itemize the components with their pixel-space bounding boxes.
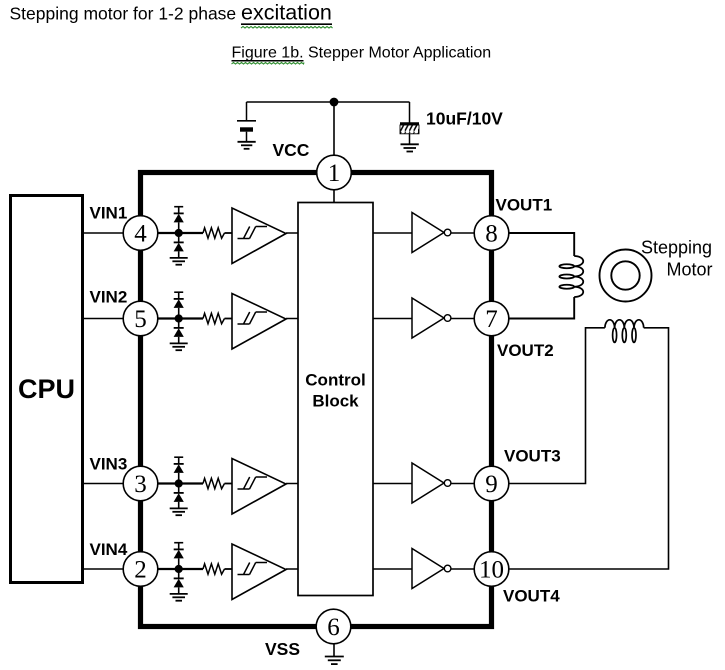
pin 3 (VIN3) [123,466,158,501]
wire resistor R1 to buffer [225,232,233,234]
svg-text:VIN3: VIN3 [90,455,128,474]
svg-text:CPU: CPU [18,374,75,404]
resistor R1 [203,228,225,238]
wire resistor R3 to buffer [225,483,233,485]
wire VOUT1 (pin 8) to coil L1 [508,233,574,256]
wire CPU to pin 2 (VIN4) [84,568,124,570]
pin 2 (VIN4) [123,552,158,587]
control block U1 [298,203,373,596]
wire pin 4 to resistor R1 [157,232,203,234]
pin 10 (VOUT4) [474,552,509,587]
pin 6 (VSS) [316,609,351,644]
underline (Figure 1b.) [232,60,304,62]
svg-text:Stepping: Stepping [641,238,712,258]
svg-text:VOUT4: VOUT4 [503,587,560,606]
wire control block to inverter (row 2) [373,318,412,320]
svg-text:10uF/10V: 10uF/10V [426,109,503,129]
CPU block [11,196,83,583]
ground (C1) [238,142,256,149]
node input junction row 1 [175,229,183,237]
wire buffer to control block (row 1) [286,232,298,234]
svg-text:VOUT3: VOUT3 [504,447,561,466]
wire coil L1 to VOUT2 (pin 7) [508,297,574,319]
svg-text:VCC: VCC [273,140,310,160]
diode D3a (ESD to VCC stub) [174,457,184,483]
svg-text:3: 3 [134,471,147,498]
svg-text:VOUT1: VOUT1 [496,196,553,215]
wire resistor R4 to buffer [225,568,233,570]
diode D4b (ESD to ground) [174,569,184,594]
wire VOUT3 (pin 9) to coil L2 [508,328,605,484]
wire pin 5 to resistor R2 [157,317,203,319]
ground (row 3) [170,508,188,515]
svg-text:1: 1 [328,160,341,187]
inverter N4 [412,549,451,589]
resistor R3 [203,478,225,488]
wire buffer to control block (row 3) [286,483,298,485]
node VCC junction [330,98,339,107]
svg-text:5: 5 [134,306,147,333]
schmitt-trigger buffer U2 [232,208,286,264]
node input junction row 4 [175,565,183,573]
inductor L2 (motor winding B) [605,320,644,343]
inverter N2 [412,298,451,338]
stepping motor symbol M1 [600,250,652,302]
pin 1 (VCC) [317,155,352,190]
pin 5 (VIN2) [123,301,158,336]
wire inverter to pin 10 [451,568,475,570]
wire control block to inverter (row 4) [373,568,412,570]
svg-text:9: 9 [485,471,498,498]
IC package outline (thick border) [141,173,492,627]
wire buffer to control block (row 2) [286,318,298,320]
wire inverter to pin 9 [451,483,475,485]
diode D1b (ESD to ground) [174,233,184,258]
svg-text:6: 6 [327,614,340,641]
wire control block to inverter (row 1) [373,232,412,234]
wire inverter to pin 8 [451,232,475,234]
wire buffer to control block (row 4) [286,568,298,570]
ground (row 4) [170,594,188,601]
diode D2a (ESD to VCC stub) [174,292,184,318]
wire CPU to pin 5 (VIN2) [84,318,124,320]
svg-text:VSS: VSS [265,639,300,659]
label Stepping Motor [641,238,713,280]
svg-text:Block: Block [312,392,359,411]
svg-text:VIN4: VIN4 [90,540,128,559]
grammar-check wavy underline (excitation) [241,27,333,29]
svg-text:VOUT2: VOUT2 [497,341,554,360]
diode D3b (ESD to ground) [174,484,184,509]
wire pin 2 to resistor R4 [157,568,203,570]
wire inverter to pin 7 [451,318,475,320]
grammar-check wavy underline (Figure 1b.) [232,62,305,64]
underline (excitation) [241,23,332,25]
ground (C2) [401,144,419,151]
diode D2b (ESD to ground) [174,319,184,344]
resistor R2 [203,313,225,323]
wire coil L2 to VOUT4 (pin 10) [508,328,669,569]
wire resistor R2 to buffer [225,318,233,320]
wire pin 1 to control block [333,189,335,203]
pin 8 (VOUT1) [474,216,509,251]
svg-text:VIN1: VIN1 [90,204,128,223]
svg-text:Motor: Motor [667,260,713,280]
wire VCC rail to pin 1 [333,102,335,156]
svg-text:7: 7 [485,306,498,333]
svg-text:VIN2: VIN2 [90,288,128,307]
svg-text:8: 8 [485,220,498,247]
svg-text:2: 2 [134,556,147,583]
schmitt-trigger buffer U5 [232,544,286,600]
capacitor C2 (electrolytic 10uF/10V) [400,102,419,144]
resistor R4 [203,564,225,574]
diode D4a (ESD to VCC stub) [174,543,184,569]
svg-text:Stepping motor for 1-2 phase e: Stepping motor for 1-2 phase excitation [10,0,332,24]
capacitor C1 (bypass, left) [237,102,256,141]
wire CPU to pin 3 (VIN3) [84,483,124,485]
node input junction row 3 [175,479,183,487]
schmitt-trigger buffer U4 [232,459,286,515]
svg-text:10: 10 [479,556,504,583]
ground (row 1) [170,258,188,265]
inverter N3 [412,463,451,503]
pin 9 (VOUT3) [474,466,509,501]
wire pin 3 to resistor R3 [157,482,203,484]
diode D1a (ESD to VCC stub) [174,207,184,233]
wire CPU to pin 4 (VIN1) [84,232,124,234]
ground (row 2) [170,343,188,350]
svg-text:4: 4 [134,220,147,247]
ground (VSS pin 6) [325,644,344,664]
svg-text:Control: Control [305,371,365,390]
svg-text:Figure 1b. Stepper Motor Appli: Figure 1b. Stepper Motor Application [232,45,492,62]
wire VCC rail (top horizontal) [247,101,410,103]
pin 4 (VIN1) [123,216,158,251]
inverter N1 [412,213,451,253]
node input junction row 2 [175,314,183,322]
inductor L1 (motor winding A) [559,256,583,297]
pin 7 (VOUT2) [474,301,509,336]
schmitt-trigger buffer U3 [232,294,286,350]
wire control block to inverter (row 3) [373,483,412,485]
